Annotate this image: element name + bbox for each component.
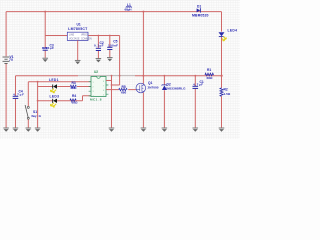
wire top rail [6,11,221,13]
svg-text:S1: S1 [33,110,37,114]
wire S1 net horizontal [28,81,91,83]
ground (D2) [162,128,168,132]
wire LED feed vertical [37,82,39,128]
svg-text:680: 680 [121,90,126,94]
wire LED3 row [38,96,91,101]
capacitor C2 [96,48,101,50]
voltage regulator U1 LM7805CT [67,32,88,40]
switch S1 [25,105,29,119]
node U1 input drop [44,11,46,13]
svg-text:MBR0520: MBR0520 [192,13,209,17]
zener D2 1N5336BRLG [163,76,165,128]
node C2 [98,35,100,37]
svg-text:LM7805CT: LM7805CT [68,27,88,31]
wire right edge drop to LED4 [221,12,223,32]
svg-text:68Ω: 68Ω [71,86,77,90]
capacitor C3 [43,48,48,50]
svg-text:LED3: LED3 [50,95,60,99]
inductor L1 [126,6,132,9]
LED4 [219,32,227,41]
svg-text:U2: U2 [94,70,98,74]
wire IC pin7 to R5 to Q1 gate [106,89,136,91]
svg-text:C5: C5 [113,39,117,43]
ground (U1) [75,60,81,64]
wire into U1 [45,35,67,37]
resistor R1 [205,73,213,76]
ground (C3) [42,58,48,62]
wire output corner down [112,36,120,86]
resistor R3 [70,85,76,88]
node IC ground net top [111,75,113,77]
node LED3 row [37,100,39,102]
svg-text:LED4: LED4 [228,28,238,32]
node C5 [109,35,111,37]
resistor R2 vertical [220,88,223,96]
ground (S1) [26,128,32,132]
wire S1 drop [27,82,29,128]
resistor R4 [70,99,76,102]
ground (Q1 source) [141,128,147,132]
svg-text:2N7000: 2N7000 [148,85,159,89]
svg-text:LED1: LED1 [49,78,59,82]
svg-text:LINE: LINE [69,34,75,36]
IC U2 [89,81,109,96]
node Q1 drain rail junction [142,11,144,13]
wire U1 common pin [77,40,79,60]
svg-text:R3: R3 [72,81,76,85]
svg-text:Key = A: Key = A [32,114,42,118]
svg-text:MC1_8: MC1_8 [90,97,102,101]
ground (C1) [193,128,199,132]
svg-text:U1: U1 [77,23,81,27]
node output drop crossing [119,75,121,77]
wire mid horizontal net red right part [135,75,222,77]
ground (R2) [219,128,225,132]
svg-text:R1: R1 [207,68,211,72]
svg-text:0.1µF: 0.1µF [94,44,104,48]
svg-text:0.33µF: 0.33µF [42,46,54,50]
wire mid horizontal net gray part [78,75,135,77]
svg-text:1.5Ω: 1.5Ω [224,92,231,96]
ground (C5) [107,58,113,62]
svg-text:D1: D1 [197,4,201,8]
svg-text:1N5336BRLG: 1N5336BRLG [166,86,187,90]
wire C2 drop [97,36,99,59]
node Q1 drain mid junction [142,75,144,77]
svg-text:4.7µF: 4.7µF [13,93,24,97]
wire IC pin8 right [106,80,112,82]
LED1 [51,84,58,92]
node jog [111,84,113,86]
ground (battery) [3,128,9,132]
capacitor C1 [194,76,196,128]
capacitor C5 [107,47,112,49]
wire U1 output [88,35,119,37]
ground (LED net) [35,128,41,132]
svg-text:R2: R2 [224,87,228,91]
wire LED1 row [38,86,91,88]
transistor Q1 2N7000 [142,12,144,84]
svg-text:R5: R5 [122,85,126,89]
svg-text:L1: L1 [127,3,131,7]
wire U1 input drop [44,12,46,58]
LED3 [51,99,58,107]
svg-text:100nF: 100nF [108,43,118,47]
battery V1 [3,57,10,63]
ground (IC) [109,128,115,132]
wire LED4 to junction [221,37,223,88]
wire IC ground vertical [111,76,113,128]
svg-text:R4: R4 [72,94,76,98]
svg-text:68µH: 68µH [125,7,133,11]
diode D1 MBR0520 [197,8,201,12]
svg-text:68Ω: 68Ω [207,76,213,80]
svg-text:COMMON: COMMON [81,38,92,40]
wire C5 drop [109,36,111,58]
wire left vertical battery net [5,12,7,128]
wire C4 drop [15,76,17,128]
svg-text:68Ω: 68Ω [72,101,78,105]
ground (C4) [13,128,19,132]
svg-text:VREG: VREG [81,34,88,36]
ground (C2) [96,59,102,63]
svg-text:Q1: Q1 [148,81,153,85]
node LED feed [37,81,39,83]
capacitor C4 [13,96,19,98]
wire mid horizontal net red left part [16,75,79,77]
resistor R5 [119,88,127,90]
svg-text:4.7µF: 4.7µF [193,83,203,87]
node right corner [221,75,223,77]
